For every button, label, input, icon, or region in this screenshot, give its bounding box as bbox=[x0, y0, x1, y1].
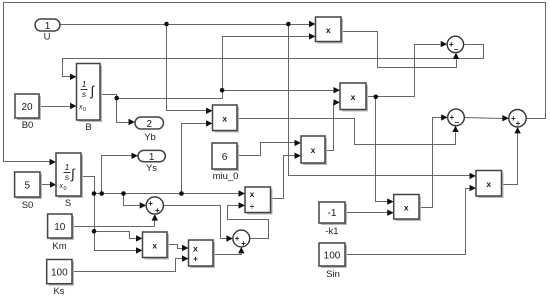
product P3 bbox=[342, 85, 368, 112]
outport Ys bbox=[138, 150, 165, 161]
svg-text:B: B bbox=[85, 122, 91, 133]
wire: product P9 output to SM2 input 1 bbox=[420, 118, 442, 208]
svg-text:U: U bbox=[44, 32, 51, 43]
svg-text:10: 10 bbox=[54, 222, 66, 233]
svg-text:x: x bbox=[152, 240, 157, 250]
svg-text:-1: -1 bbox=[328, 208, 337, 219]
svg-text:Yb: Yb bbox=[144, 132, 156, 143]
svg-text:1: 1 bbox=[45, 21, 51, 32]
svg-text:x: x bbox=[486, 179, 491, 189]
wire: SM5 output loop to divide P5 input 2 bbox=[228, 206, 269, 239]
inport U bbox=[35, 19, 60, 31]
wire: product P2 output to SM2 bottom input bbox=[238, 119, 456, 145]
wire: Ks constant to divide P6 input 2 bbox=[73, 259, 183, 272]
svg-text:+: + bbox=[516, 119, 521, 128]
svg-text:B0: B0 bbox=[22, 120, 34, 131]
svg-text:20: 20 bbox=[21, 102, 33, 113]
wire: P3 output branch down to product P9 input 1 bbox=[376, 97, 388, 202]
constant -k1 bbox=[321, 204, 347, 225]
wire: product P8 output to SM3 bottom input bbox=[502, 134, 518, 185]
wire: integrator B output to junction bbox=[101, 95, 129, 123]
constant Km bbox=[50, 216, 74, 240]
svg-text:x: x bbox=[351, 92, 356, 102]
node P3 output junction bbox=[374, 95, 379, 100]
svg-text:x: x bbox=[222, 113, 227, 123]
wire: S0 constant to integrator S input 2 bbox=[41, 184, 51, 186]
node S junction e bbox=[92, 229, 97, 234]
sum SM5 bbox=[233, 230, 250, 247]
product P9 bbox=[396, 197, 421, 222]
wire: branch up to Ys outport bbox=[102, 156, 132, 194]
svg-text:0: 0 bbox=[83, 107, 86, 113]
constant Ks bbox=[49, 262, 74, 286]
svg-text:+: + bbox=[235, 234, 240, 243]
wire: product P7 output to divide P6 input 1 bbox=[168, 245, 183, 249]
constant Sin bbox=[321, 245, 347, 268]
wire: SM2 output to SM3 input 1 bbox=[465, 118, 503, 119]
svg-text:miu_0: miu_0 bbox=[213, 171, 239, 182]
wire: -k1 constant to product P9 input 2 bbox=[346, 212, 388, 214]
divide P5 bbox=[247, 189, 273, 215]
wire: U branch down to product P2 input 1 bbox=[167, 25, 207, 111]
wire: branch to product P7 input 1 bbox=[95, 232, 137, 239]
node U-branch1 bbox=[164, 22, 169, 27]
constant S0 bbox=[17, 174, 42, 199]
svg-text:0: 0 bbox=[64, 186, 67, 192]
svg-text:S: S bbox=[65, 198, 71, 209]
wire: product P3 output to SM1 input 1 bbox=[367, 45, 441, 97]
integrator B bbox=[79, 66, 103, 123]
svg-text:Ks: Ks bbox=[53, 286, 64, 297]
svg-text:x: x bbox=[326, 25, 331, 35]
node S junction d bbox=[179, 191, 184, 196]
wire: U branch down to product P8 input 1 bbox=[289, 25, 470, 176]
sum SM2 bbox=[448, 109, 465, 126]
svg-text:1: 1 bbox=[82, 79, 87, 89]
svg-text:x: x bbox=[311, 145, 316, 155]
wire: integrator S output down to S distribution line bbox=[82, 177, 95, 194]
wire: B output run to vertical riser bbox=[117, 37, 310, 99]
svg-text:6: 6 bbox=[222, 152, 228, 163]
wire: S branch down feeding product P7 inputs bbox=[95, 194, 137, 251]
svg-text:+: + bbox=[148, 199, 153, 208]
node U-branch2 bbox=[286, 22, 291, 27]
node B riser junction bbox=[220, 88, 225, 93]
arrowheads (right-pointing) bbox=[309, 21, 316, 27]
arrowheads (up-pointing) bbox=[453, 53, 459, 59]
wire: giant feedback loop SM3 output around frame to S integrator input 1 bbox=[4, 3, 546, 162]
svg-text:100: 100 bbox=[324, 251, 341, 262]
sum SM4 bbox=[146, 197, 163, 214]
product P8 bbox=[478, 173, 504, 199]
product P7 bbox=[145, 234, 170, 260]
wire: branch up to product P2 input 2 bbox=[182, 124, 207, 194]
svg-text:1: 1 bbox=[149, 152, 155, 163]
wire: divide P5 output to product P4 input 2 bbox=[271, 156, 295, 199]
svg-text:−: − bbox=[454, 45, 459, 54]
node S junction b bbox=[99, 191, 104, 196]
wire: SM1 output feedback to integrator B input 1 bbox=[63, 45, 484, 77]
product P4 bbox=[303, 138, 327, 165]
sum SM3 bbox=[509, 110, 526, 127]
constant B0 bbox=[17, 96, 41, 120]
svg-text:÷: ÷ bbox=[250, 201, 255, 211]
wire: miu_0 constant to product P4 input 1 bbox=[238, 143, 295, 156]
svg-text:5: 5 bbox=[25, 181, 31, 192]
node B-output junction bbox=[114, 96, 119, 101]
svg-text:Km: Km bbox=[52, 241, 66, 252]
svg-text:−: − bbox=[454, 118, 459, 127]
constant miu_0 bbox=[214, 145, 239, 171]
divide P6 bbox=[191, 242, 216, 268]
svg-text:x: x bbox=[404, 202, 409, 212]
svg-text:+: + bbox=[193, 253, 198, 263]
svg-text:1: 1 bbox=[65, 162, 70, 172]
sum SM1 bbox=[447, 36, 463, 52]
outport Yb bbox=[135, 117, 164, 129]
svg-text:S0: S0 bbox=[22, 200, 34, 211]
svg-text:100: 100 bbox=[51, 268, 68, 279]
wire: S distribution line to divide P5 input 1 bbox=[95, 193, 239, 195]
wire: B junction to product P3 input 1 bbox=[223, 90, 334, 92]
product P2 bbox=[215, 107, 240, 133]
svg-text:2: 2 bbox=[147, 119, 153, 130]
wire: branch down to SM4 input 1 bbox=[124, 194, 140, 206]
wire: U source line to product P1 input 1 bbox=[61, 24, 310, 26]
svg-text:+: + bbox=[241, 239, 246, 248]
svg-text:Ys: Ys bbox=[146, 163, 157, 174]
wire: Km constant to SM4 bottom input bbox=[73, 221, 155, 227]
wire: P6 output to SM5 bottom input bbox=[214, 254, 242, 255]
wire: product P1 output to SM1 bottom input bbox=[342, 32, 457, 68]
wire: SM4 output to SM5 input 1 bbox=[164, 206, 227, 239]
svg-text:Sin: Sin bbox=[326, 269, 340, 280]
svg-text:+: + bbox=[155, 206, 160, 215]
svg-text:-k1: -k1 bbox=[325, 226, 338, 237]
node S junction c bbox=[121, 191, 126, 196]
product P1 bbox=[318, 19, 344, 44]
node S junction a bbox=[92, 191, 97, 196]
svg-text:x: x bbox=[250, 189, 255, 199]
wire: B0 constant to integrator B input 2 bbox=[40, 106, 71, 108]
integrator S bbox=[58, 155, 83, 198]
wire: product P4 output to product P3 input 2 bbox=[326, 103, 334, 151]
wire: Sin constant to product P8 input 2 bbox=[346, 189, 470, 255]
svg-text:x: x bbox=[193, 243, 198, 253]
